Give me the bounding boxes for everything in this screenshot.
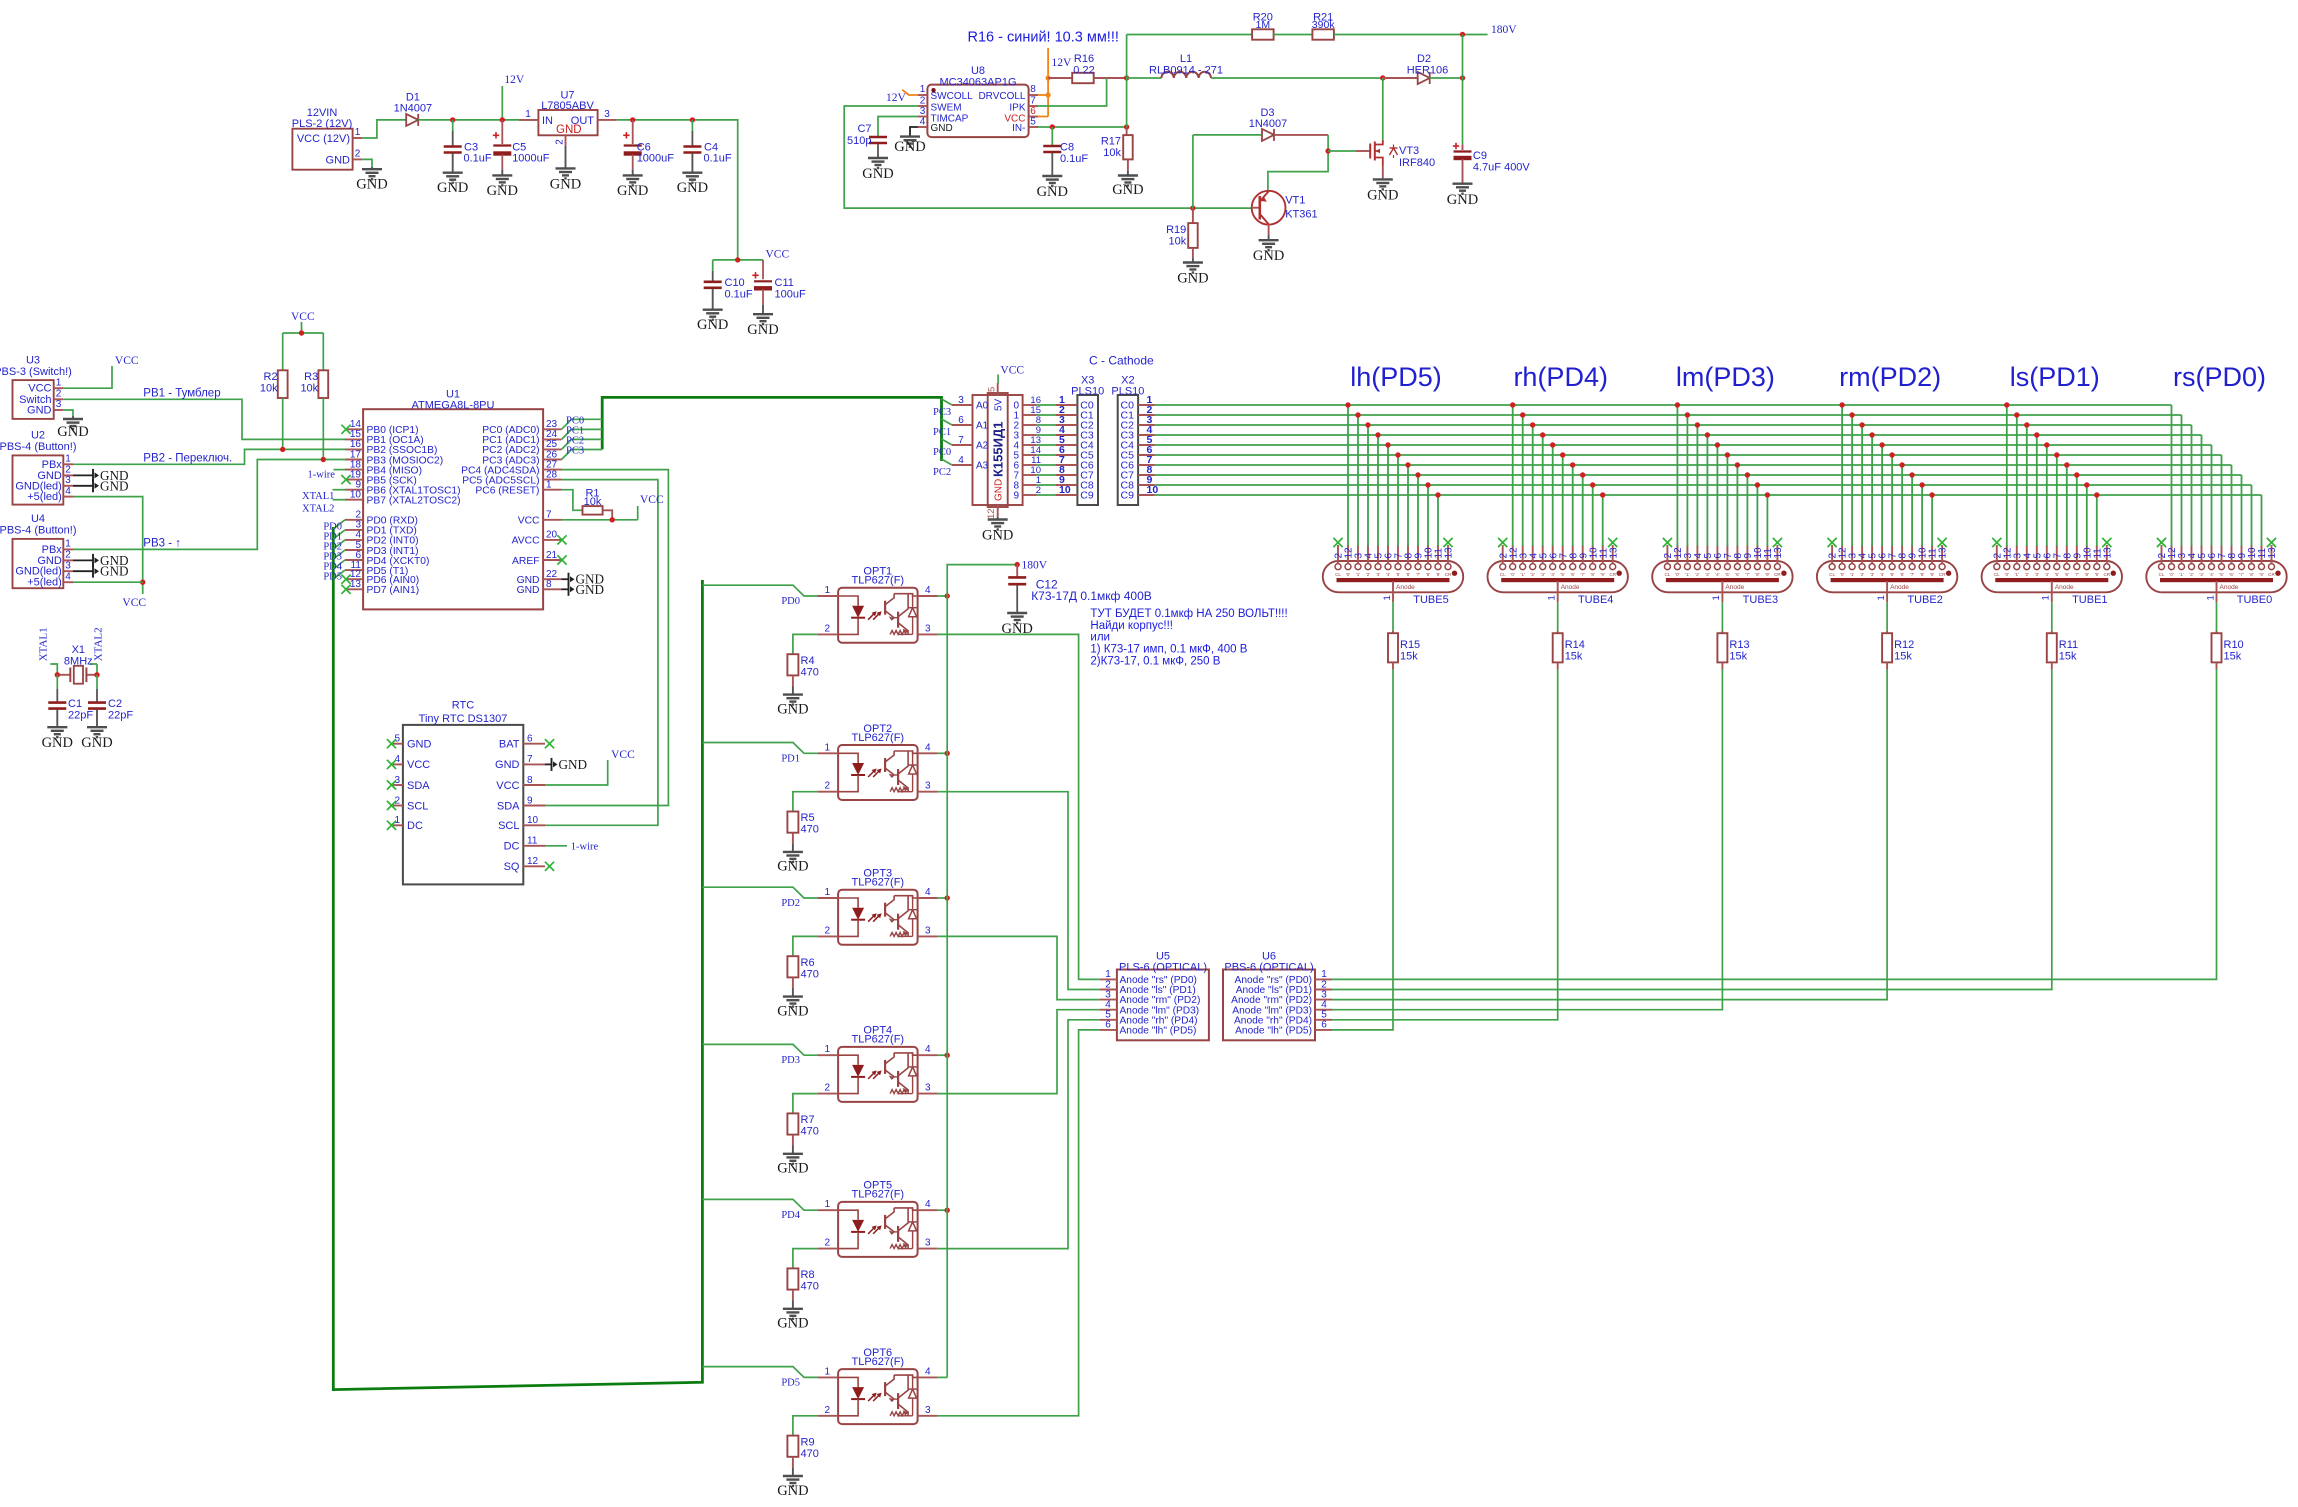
svg-text:5: 5 bbox=[1030, 117, 1036, 128]
resistor R8 470 bbox=[787, 1268, 798, 1289]
no-connect X on PB5 bbox=[341, 475, 350, 484]
svg-text:1: 1 bbox=[824, 1199, 830, 1210]
svg-text:C11: C11 bbox=[775, 277, 794, 289]
svg-text:10k: 10k bbox=[1103, 147, 1121, 159]
orange 12V rail at U8 right bbox=[1047, 48, 1049, 117]
svg-text:GND: GND bbox=[356, 177, 387, 193]
svg-text:15k: 15k bbox=[2059, 651, 2077, 663]
svg-text:'9': '9' bbox=[1601, 572, 1605, 577]
svg-text:12V: 12V bbox=[886, 92, 907, 104]
U6 pin 3 bbox=[1315, 999, 1332, 1001]
svg-text:R15: R15 bbox=[1400, 639, 1420, 651]
U6 pin 5 bbox=[1315, 1019, 1332, 1021]
svg-text:'5': '5' bbox=[2055, 572, 2059, 577]
MCU pin 21 AREF bbox=[543, 559, 561, 561]
svg-text:lh(PD5): lh(PD5) bbox=[1350, 362, 1442, 392]
wire OPT4 pin3 to U5 pin4 bbox=[938, 1010, 1100, 1094]
wire MCU PC1 tap to bus bbox=[562, 429, 603, 439]
svg-text:0.1uF: 0.1uF bbox=[704, 153, 732, 165]
svg-text:BAT: BAT bbox=[499, 739, 520, 751]
K155 output pin 1 digit 8 bbox=[1023, 484, 1037, 486]
RTC pin 7 GND bbox=[523, 763, 545, 765]
ground of R19 bbox=[1192, 248, 1194, 259]
K155 output pin 15 digit 1 bbox=[1023, 414, 1037, 416]
net label VCC at MCU bbox=[637, 506, 639, 520]
svg-text:'6': '6' bbox=[2065, 572, 2069, 577]
ground of C8 bbox=[1051, 153, 1053, 176]
button connector U4 PBS-4 bbox=[13, 539, 64, 588]
svg-text:Anode "lh" (PD5): Anode "lh" (PD5) bbox=[1235, 1026, 1312, 1037]
svg-text:'9': '9' bbox=[1436, 572, 1440, 577]
svg-text:13: 13 bbox=[2267, 547, 2278, 559]
svg-text:470: 470 bbox=[801, 1448, 819, 1460]
wire PD1 tap to OPT2 pin1 bbox=[702, 743, 818, 754]
svg-text:13: 13 bbox=[1608, 547, 1619, 559]
svg-text:CL: CL bbox=[1829, 572, 1835, 577]
optocoupler OPT2 TLP627(F) bbox=[838, 745, 918, 800]
RTC pin 1 DC bbox=[393, 824, 403, 826]
junction node R19 top bbox=[1190, 205, 1195, 210]
svg-text:3: 3 bbox=[925, 623, 931, 634]
transistor VT1 KT361 (PNP) bbox=[1252, 191, 1286, 225]
svg-text:0.22: 0.22 bbox=[1073, 64, 1094, 76]
svg-text:DC: DC bbox=[504, 841, 520, 853]
wire D3 anode branch bbox=[1192, 135, 1194, 208]
transistor VT3 IRF840 (MOSFET) bbox=[1356, 150, 1370, 152]
svg-text:'1': '1' bbox=[2179, 572, 2183, 577]
svg-text:rm(PD2): rm(PD2) bbox=[1839, 362, 1941, 392]
IC U8 MC34063AP1G bbox=[927, 85, 1028, 138]
svg-text:1-wire: 1-wire bbox=[308, 470, 336, 481]
svg-text:R10: R10 bbox=[2224, 639, 2244, 651]
K155 output pin 16 digit 0 bbox=[1023, 404, 1037, 406]
resistor R14 15k bbox=[1553, 633, 1563, 662]
svg-text:GND: GND bbox=[550, 177, 581, 193]
K155 input pin 4 A3 bbox=[952, 464, 973, 466]
svg-text:15k: 15k bbox=[1400, 651, 1418, 663]
anode pin 1 of TUBE1 bbox=[2051, 581, 2053, 602]
U6 pin 4 bbox=[1315, 1009, 1332, 1011]
svg-text:PBS-4 (Button!): PBS-4 (Button!) bbox=[0, 525, 77, 537]
svg-text:13: 13 bbox=[1444, 547, 1455, 559]
junction node U4 pin4 bbox=[140, 580, 145, 585]
K155 output pin 10 digit 7 bbox=[1023, 474, 1037, 476]
svg-text:1: 1 bbox=[65, 454, 71, 465]
ground of C12 bbox=[1016, 585, 1018, 613]
capacitor C1 22pF bbox=[56, 675, 58, 689]
MCU pin 9 PB6 (XTAL1TOSC1) bbox=[345, 489, 363, 491]
ground of C5 bbox=[501, 155, 503, 170]
diode D1 1N4007 bbox=[406, 114, 418, 126]
ground of C1 bbox=[56, 710, 58, 728]
wire OPT2 pin2 to R5 bbox=[793, 792, 818, 812]
ground flags of U2 bbox=[73, 474, 93, 476]
svg-text:U3: U3 bbox=[26, 355, 40, 367]
svg-text:1: 1 bbox=[920, 84, 926, 95]
svg-text:GND: GND bbox=[777, 701, 808, 717]
resistor R15 15k bbox=[1388, 633, 1398, 662]
X2 pin 5 C4 bbox=[1138, 444, 1155, 446]
K155 output pin 2 digit 9 bbox=[1023, 494, 1037, 496]
no-connect X TUBE1 pin 2 bbox=[1992, 538, 2001, 547]
capacitor C2 22pF bbox=[96, 675, 98, 689]
svg-text:CL: CL bbox=[1500, 572, 1506, 577]
junction node at C6 bbox=[630, 117, 635, 122]
svg-text:'4': '4' bbox=[1715, 572, 1719, 577]
U5 pin 2 bbox=[1100, 989, 1117, 991]
svg-text:GND: GND bbox=[1177, 271, 1208, 287]
svg-text:3: 3 bbox=[56, 399, 62, 410]
resistor R7 470 bbox=[787, 1113, 798, 1134]
svg-text:0.1uF: 0.1uF bbox=[464, 153, 492, 165]
svg-text:VCC: VCC bbox=[766, 248, 790, 260]
svg-text:1-wire: 1-wire bbox=[571, 842, 599, 853]
wire PB4 1-wire stub bbox=[334, 469, 346, 471]
svg-text:PLS10: PLS10 bbox=[1111, 385, 1144, 397]
switch connector U3 PBS-3 bbox=[13, 380, 54, 419]
svg-text:'8': '8' bbox=[1920, 572, 1924, 577]
K155 input pin 3 A0 bbox=[952, 404, 973, 406]
svg-text:1: 1 bbox=[824, 1366, 830, 1377]
svg-text:GND: GND bbox=[697, 317, 728, 333]
svg-text:470: 470 bbox=[801, 1281, 819, 1293]
svg-text:GND: GND bbox=[100, 478, 129, 493]
svg-text:390k: 390k bbox=[1312, 19, 1336, 31]
X2 pin 8 C7 bbox=[1138, 474, 1155, 476]
wire K155 output 5 to X3 bbox=[1037, 454, 1056, 456]
resistor R6 470 bbox=[787, 956, 798, 977]
K155 output pin 14 digit 5 bbox=[1023, 454, 1037, 456]
cathode drops to TUBE0 bbox=[2171, 405, 2173, 546]
svg-text:GND: GND bbox=[559, 757, 588, 772]
svg-text:SCL: SCL bbox=[498, 820, 519, 832]
svg-text:'0': '0' bbox=[1346, 572, 1350, 577]
svg-text:'0': '0' bbox=[2169, 572, 2173, 577]
svg-text:12: 12 bbox=[527, 856, 539, 867]
svg-text:'3': '3' bbox=[1541, 572, 1545, 577]
wire K155 output 8 to X3 bbox=[1037, 484, 1056, 486]
MCU pin 4 PD2 (INT0) bbox=[345, 539, 363, 541]
svg-text:'3': '3' bbox=[2199, 572, 2203, 577]
capacitor C7 510p bbox=[869, 136, 887, 139]
svg-text:Anode: Anode bbox=[1725, 584, 1744, 591]
wire MCU PC0 tap to bus bbox=[562, 419, 603, 429]
svg-text:GND: GND bbox=[326, 155, 351, 167]
svg-text:IN-: IN- bbox=[1012, 123, 1025, 134]
anode wire TUBE4 to U6 pin 5 bbox=[1332, 669, 1558, 1019]
ground flag MCU pin 8 bbox=[562, 588, 569, 590]
capacitor C9 4.7uF 400V bbox=[1462, 144, 1464, 150]
svg-text:R17: R17 bbox=[1101, 136, 1121, 148]
svg-text:C8: C8 bbox=[1060, 142, 1074, 154]
svg-text:R3: R3 bbox=[304, 371, 318, 383]
wire R21 to 180V label bbox=[1334, 34, 1488, 36]
MCU pin 13 PD7 (AIN1) bbox=[345, 588, 363, 590]
U5 pin 3 bbox=[1100, 999, 1117, 1001]
wire XTAL2 to crystal bbox=[90, 663, 97, 665]
wire K155 output 3 to X3 bbox=[1037, 434, 1056, 436]
svg-text:C10: C10 bbox=[725, 277, 745, 289]
svg-text:1: 1 bbox=[65, 539, 71, 550]
svg-text:GND: GND bbox=[1367, 188, 1398, 204]
net PB1 wire U3 pin2 to MCU PB1 bbox=[63, 399, 345, 439]
diode D3 1N4007 bbox=[1193, 134, 1262, 136]
svg-text:GND: GND bbox=[777, 859, 808, 875]
svg-text:'0': '0' bbox=[2005, 572, 2009, 577]
svg-text:12V: 12V bbox=[1052, 57, 1073, 69]
svg-text:RLB0914 - 271: RLB0914 - 271 bbox=[1149, 64, 1223, 76]
svg-text:10k: 10k bbox=[260, 383, 278, 395]
wire MCU pin28 SCL to RTC pin10 bbox=[545, 480, 658, 826]
wire PD5 tap to OPT6 pin1 bbox=[702, 1367, 818, 1378]
svg-text:'1': '1' bbox=[1521, 572, 1525, 577]
svg-text:L7805ABV: L7805ABV bbox=[541, 100, 594, 112]
wire OPT1 pin3 to U5 pin1 bbox=[938, 634, 1100, 979]
svg-text:1: 1 bbox=[824, 1044, 830, 1055]
svg-text:D1: D1 bbox=[406, 91, 420, 103]
svg-text:TLP627(F): TLP627(F) bbox=[852, 575, 905, 587]
svg-text:SDA: SDA bbox=[407, 780, 430, 792]
svg-text:CR: CR bbox=[1445, 572, 1452, 577]
svg-text:'1': '1' bbox=[2015, 572, 2019, 577]
no-connect X TUBE4 pin 13 bbox=[1608, 538, 1617, 547]
svg-text:8MHz: 8MHz bbox=[64, 655, 93, 667]
connector X3 PLS10 bbox=[1077, 395, 1098, 505]
MCU pin 7 VCC bbox=[543, 519, 561, 521]
wire MCU PD5 tap to bus bbox=[333, 570, 345, 579]
svg-text:'3': '3' bbox=[2035, 572, 2039, 577]
svg-text:4: 4 bbox=[958, 455, 964, 466]
svg-text:3: 3 bbox=[958, 395, 964, 406]
svg-text:CR: CR bbox=[1609, 572, 1616, 577]
wire MCU PD3 tap to bus bbox=[333, 550, 345, 559]
svg-text:'2': '2' bbox=[2189, 572, 2193, 577]
svg-text:'2': '2' bbox=[1860, 572, 1864, 577]
svg-text:GND: GND bbox=[495, 759, 520, 771]
svg-text:'2': '2' bbox=[1695, 572, 1699, 577]
X3 pin 1 C0 bbox=[1055, 404, 1077, 406]
svg-text:'8': '8' bbox=[1591, 572, 1595, 577]
svg-text:12V: 12V bbox=[504, 74, 525, 86]
wire MCU PC2 tap to bus bbox=[562, 439, 603, 449]
RTC pin 8 VCC bbox=[523, 784, 545, 786]
svg-text:GND: GND bbox=[862, 166, 893, 182]
ground of R4 bbox=[792, 675, 794, 686]
svg-text:XTAL1: XTAL1 bbox=[302, 491, 334, 502]
wire U3 pin3 to ground bbox=[63, 410, 73, 416]
wire K155 output 6 to X3 bbox=[1037, 464, 1056, 466]
junction node VT3 drain / D2 bbox=[1380, 75, 1385, 80]
wire PD3 tap to OPT4 pin1 bbox=[702, 1044, 818, 1055]
junction node R3 bottom on PB3 bbox=[321, 457, 326, 462]
resistor R4 470 bbox=[787, 654, 798, 675]
X3 pin 10 C9 bbox=[1055, 494, 1077, 496]
K155 input pin 6 A1 bbox=[952, 424, 973, 426]
MCU pin 17 PB3 (MOSIOC2) bbox=[345, 459, 363, 461]
svg-text:21: 21 bbox=[546, 550, 558, 561]
MCU pin 14 PB0 (ICP1) bbox=[345, 428, 363, 430]
wire PD4 tap to OPT5 pin1 bbox=[702, 1199, 818, 1210]
svg-text:'9': '9' bbox=[1765, 572, 1769, 577]
junction node VT3 gate bbox=[1325, 148, 1330, 153]
svg-text:PD5: PD5 bbox=[781, 1377, 800, 1388]
U8 GND pin 4 to ground bbox=[910, 127, 918, 136]
svg-text:15k: 15k bbox=[1894, 651, 1912, 663]
svg-text:5: 5 bbox=[987, 387, 998, 392]
RTC pin 9 SDA bbox=[523, 805, 545, 807]
svg-text:TUBE5: TUBE5 bbox=[1413, 594, 1448, 606]
svg-text:'9': '9' bbox=[1930, 572, 1934, 577]
wire OPT5 pin2 to R8 bbox=[793, 1249, 818, 1269]
svg-text:9: 9 bbox=[527, 795, 533, 806]
svg-text:2: 2 bbox=[824, 623, 830, 634]
K155 output pin 8 digit 2 bbox=[1023, 424, 1037, 426]
capacitor C8 0.1uF bbox=[1051, 127, 1053, 145]
wire U8 IPK to R16 node bbox=[1038, 78, 1107, 106]
svg-text:'0': '0' bbox=[1675, 572, 1679, 577]
svg-text:TLP627(F): TLP627(F) bbox=[852, 1356, 905, 1368]
svg-text:PC6 (RESET): PC6 (RESET) bbox=[475, 486, 539, 497]
svg-text:VCC: VCC bbox=[611, 749, 635, 761]
svg-text:PB2 - Переключ.: PB2 - Переключ. bbox=[143, 452, 232, 464]
MCU pin 1 PC6 (RESET) bbox=[543, 489, 561, 491]
anode pin 1 of TUBE0 bbox=[2216, 581, 2218, 602]
no-connect X TUBE5 pin 2 bbox=[1333, 538, 1342, 547]
svg-text:'6': '6' bbox=[2229, 572, 2233, 577]
svg-text:GND: GND bbox=[677, 180, 708, 196]
svg-text:TUBE0: TUBE0 bbox=[2237, 594, 2272, 606]
K155 input pin 7 A2 bbox=[952, 444, 973, 446]
svg-text:GND: GND bbox=[576, 582, 605, 597]
ground of C10 bbox=[712, 289, 714, 310]
svg-text:К155ИД1: К155ИД1 bbox=[991, 422, 1006, 477]
capacitor C6 1000uF bbox=[632, 120, 634, 144]
svg-text:10: 10 bbox=[350, 490, 362, 501]
RTC module Tiny RTC DS1307 bbox=[403, 725, 523, 885]
ground flag MCU pin 22 bbox=[562, 578, 569, 580]
ground of C7 bbox=[877, 144, 879, 158]
resistor R13 15k bbox=[1717, 633, 1727, 662]
svg-text:PD5: PD5 bbox=[323, 572, 342, 583]
K155 GND pin 12 bbox=[997, 505, 999, 517]
U6 pin 2 bbox=[1315, 989, 1332, 991]
svg-text:'8': '8' bbox=[1426, 572, 1430, 577]
wire MCU PC3 tap to bus bbox=[562, 450, 603, 460]
no-connect X on PD6 bbox=[341, 575, 350, 584]
svg-text:GND: GND bbox=[894, 139, 925, 155]
no-connect X TUBE4 pin 2 bbox=[1498, 538, 1507, 547]
K155 output pin 13 digit 4 bbox=[1023, 444, 1037, 446]
svg-text:2: 2 bbox=[65, 465, 71, 476]
X2 pin 6 C5 bbox=[1138, 454, 1155, 456]
crystal X1 8MHz bbox=[57, 674, 70, 676]
ground of R17 bbox=[1127, 159, 1129, 171]
svg-text:GND: GND bbox=[777, 1483, 808, 1499]
capacitor C10 0.1uF bbox=[712, 260, 714, 271]
svg-text:1: 1 bbox=[56, 377, 62, 388]
junction node at C4 bbox=[690, 117, 695, 122]
wire OPT2 pin3 to U5 pin2 bbox=[938, 792, 1100, 990]
PC bus MCU to K155 (dark green) bbox=[602, 397, 941, 461]
U5 pin 6 bbox=[1100, 1029, 1117, 1031]
svg-text:'1': '1' bbox=[1850, 572, 1854, 577]
svg-text:IPK: IPK bbox=[1009, 102, 1025, 113]
svg-text:R9: R9 bbox=[801, 1436, 815, 1448]
svg-text:R11: R11 bbox=[2059, 639, 2078, 651]
diode D2 HER106 bbox=[1383, 77, 1418, 79]
svg-text:GND: GND bbox=[1253, 248, 1284, 264]
svg-text:'1': '1' bbox=[1356, 572, 1360, 577]
resistor R19 10k bbox=[1192, 208, 1194, 223]
svg-text:GND: GND bbox=[42, 735, 73, 751]
wire K155 output 7 to X3 bbox=[1037, 474, 1056, 476]
wire RTC VCC pin8 to VCC label bbox=[545, 760, 608, 785]
svg-text:VCC: VCC bbox=[291, 311, 315, 323]
wire K155 output 0 to X3 bbox=[1037, 404, 1056, 406]
svg-text:4: 4 bbox=[925, 742, 931, 753]
svg-text:C - Cathode: C - Cathode bbox=[1089, 353, 1154, 367]
svg-text:CL: CL bbox=[2159, 572, 2165, 577]
svg-text:100uF: 100uF bbox=[775, 289, 806, 301]
wire K155 output 9 to X3 bbox=[1037, 494, 1056, 496]
no-connect X TUBE2 pin 2 bbox=[1828, 538, 1837, 547]
svg-text:TLP627(F): TLP627(F) bbox=[852, 1189, 905, 1201]
svg-text:5V: 5V bbox=[994, 398, 1005, 411]
svg-text:4.7uF 400V: 4.7uF 400V bbox=[1473, 162, 1531, 174]
wire PD0 tap to OPT1 pin1 bbox=[702, 585, 818, 596]
ground of VT3 source bbox=[1382, 166, 1384, 179]
no-connect X TUBE2 pin 13 bbox=[1938, 538, 1947, 547]
wire OPT6 pin2 to R9 bbox=[793, 1416, 818, 1436]
svg-text:R7: R7 bbox=[801, 1114, 815, 1126]
wire U3 pin1 to VCC bbox=[63, 366, 112, 388]
svg-text:470: 470 bbox=[801, 666, 819, 678]
wire U8 TIMCAP to C7 bbox=[878, 117, 918, 137]
ground of R9 bbox=[792, 1457, 794, 1468]
wire K155 output 2 to X3 bbox=[1037, 424, 1056, 426]
svg-text:4: 4 bbox=[925, 585, 931, 596]
resistor R16 0.22 bbox=[1048, 77, 1072, 79]
svg-text:1: 1 bbox=[824, 887, 830, 898]
svg-text:GND: GND bbox=[27, 405, 52, 417]
resistor R17 10k bbox=[1126, 127, 1128, 135]
svg-text:'5': '5' bbox=[1725, 572, 1729, 577]
svg-text:Anode: Anode bbox=[1890, 584, 1909, 591]
connector U6 PBS-6 (OPTICAL) bbox=[1223, 970, 1315, 1041]
svg-text:PC3: PC3 bbox=[933, 407, 951, 418]
svg-text:'6': '6' bbox=[1900, 572, 1904, 577]
no-connect X on PD7 bbox=[341, 585, 350, 594]
svg-text:GND: GND bbox=[931, 123, 953, 134]
svg-text:C9: C9 bbox=[1473, 150, 1487, 162]
wire D1 to U7 IN bbox=[418, 119, 538, 121]
svg-text:3: 3 bbox=[920, 106, 926, 117]
optocoupler OPT5 TLP627(F) bbox=[838, 1202, 918, 1257]
ground of C6 bbox=[632, 155, 634, 170]
svg-text:PLS-6 (OPTICAL): PLS-6 (OPTICAL) bbox=[1119, 961, 1207, 973]
svg-text:GND: GND bbox=[407, 739, 432, 751]
svg-text:15k: 15k bbox=[2224, 651, 2242, 663]
svg-text:470: 470 bbox=[801, 1126, 819, 1138]
svg-text:'9': '9' bbox=[2095, 572, 2099, 577]
resistor R1 10k bbox=[583, 506, 603, 514]
svg-text:ATMEGA8L-8PU: ATMEGA8L-8PU bbox=[412, 400, 495, 412]
no-connect X on RTC SQ bbox=[545, 862, 554, 871]
svg-text:6: 6 bbox=[1321, 1020, 1327, 1031]
junction node OPT4 pin4 on 180V rail bbox=[938, 1054, 948, 1056]
vertical wire 180V top rail to IN- node bbox=[1126, 35, 1128, 128]
svg-text:VCC (12V): VCC (12V) bbox=[297, 133, 350, 145]
